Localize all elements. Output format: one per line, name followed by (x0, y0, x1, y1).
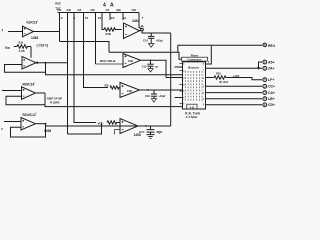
node junction A2 out (45, 62, 47, 64)
wire A3 feedback loop (6, 93, 45, 105)
box 4 D (187, 104, 197, 109)
wire lower link to B4 feed (68, 123, 102, 135)
svg-text:Beacon: Beacon (188, 65, 199, 69)
IC left pin numbers (183, 64, 185, 106)
ground funnel under C15 (148, 69, 153, 73)
wire bus stub 2a (122, 13, 124, 21)
svg-text:R3I/C14*: R3I/C14* (23, 82, 36, 86)
svg-text:1458: 1458 (31, 36, 38, 40)
svg-text:1458: 1458 (44, 129, 51, 133)
wire A3 input (2, 90, 22, 92)
wire A2 output (36, 62, 68, 64)
capacitor C17 (147, 126, 155, 135)
wire bus drop to B1 input (102, 13, 104, 30)
wire bus drop to B3 input (84, 13, 109, 88)
wire IC to terminal 8 (206, 104, 263, 106)
dot left edge lower (1, 128, 2, 129)
wire B2 route into IC pin3 (166, 77, 183, 79)
wire bus end drop to node (139, 13, 141, 29)
terminal 6 (263, 91, 275, 95)
node junction B4 out (145, 125, 147, 127)
svg-text:R2C: R2C (55, 2, 62, 6)
arrow tap to terminal 2 (257, 62, 262, 70)
svg-text:A5+: A5+ (268, 60, 275, 64)
op-amp B4 (120, 119, 138, 134)
resistor R18 4.7K (17, 45, 31, 49)
wire B1 node to riser (142, 31, 171, 33)
wire IC to terminal 7 (206, 98, 263, 100)
svg-text:40µf: 40µf (156, 130, 162, 134)
capacitor C14 (148, 33, 154, 44)
IC right pin numbers (203, 64, 205, 107)
svg-text:24B: 24B (127, 89, 132, 93)
svg-text:VCC-: VCC- (98, 122, 104, 126)
svg-text:(R, 3MV: (R, 3MV (219, 80, 228, 84)
svg-text:4 D: 4 D (190, 105, 196, 109)
IC stub left extra 6 (175, 97, 183, 99)
svg-text:C17: C17 (139, 130, 145, 134)
svg-text:LF+: LF+ (268, 78, 274, 82)
wire R33 to terminal 4 (228, 78, 262, 80)
svg-text:R 15/R5: R 15/R5 (50, 100, 60, 104)
wire Vin to A2 input (30, 47, 32, 58)
op-amp A3 (22, 87, 36, 100)
wire Vin lead (14, 46, 17, 48)
mark above node (141, 26, 143, 27)
node open circle test point (141, 28, 144, 31)
wire B2 output to IC pin3 (141, 60, 167, 77)
wire bus drop to A1 output and row line (34, 13, 60, 42)
resistor R33 (214, 76, 228, 79)
svg-text:24: 24 (98, 16, 102, 20)
op-amp B2 (123, 54, 141, 68)
node junction B2 out (150, 59, 152, 61)
wire A3 output (36, 92, 46, 94)
op-amp A2 (22, 57, 36, 70)
ground under C17 (147, 135, 155, 139)
svg-text:VIN: VIN (5, 46, 10, 50)
wire B3 output to IC (140, 89, 183, 91)
svg-text:24B: 24B (128, 59, 133, 63)
svg-text:RX-: RX- (105, 84, 110, 88)
terminal 8 (263, 103, 275, 107)
svg-text:C16: C16 (145, 94, 150, 98)
op-amp B3 (120, 83, 140, 98)
wire A4 feedback loop (11, 124, 46, 137)
capacitor C15 (147, 60, 153, 68)
header box connector (182, 57, 208, 61)
wire bridge to terminal 1 (211, 44, 262, 46)
resistor Rx input (110, 86, 120, 89)
ground funnel under C16 (151, 99, 156, 103)
svg-text:K3/C13*: K3/C13* (27, 21, 39, 25)
svg-text:R33: R33 (216, 72, 221, 76)
op-amp B1 (124, 23, 140, 39)
svg-text:LB+: LB+ (268, 97, 275, 101)
svg-text:# 4 5j0w: # 4 5j0w (186, 115, 198, 119)
svg-text:C15: C15 (142, 64, 147, 68)
capacitor C16 (151, 90, 157, 99)
svg-text:64K: 64K (106, 32, 112, 36)
resistor Vcc input (107, 121, 120, 124)
wire bus drop to B4 input (74, 13, 96, 123)
terminal 5 (263, 84, 275, 88)
wire A1 input (8, 31, 23, 33)
svg-text:D4: D4 (78, 8, 82, 12)
svg-text:C4: C4 (106, 8, 110, 12)
ground funnel under C14 (149, 44, 154, 48)
wire long line A4 output to IC riser (46, 125, 171, 127)
svg-text:( C16 #): ( C16 #) (37, 43, 49, 47)
svg-text:CA+: CA+ (268, 91, 275, 95)
terminal 2 (263, 60, 275, 64)
dot left edge upper (2, 29, 3, 30)
top bus wire (58, 12, 140, 14)
wire A2 feedback loop (5, 63, 46, 73)
wire B1 output (140, 29, 141, 32)
svg-text:21: 21 (85, 16, 89, 20)
wire bus drop to B2 input (95, 13, 97, 65)
svg-text:RIBF-CF-WF: RIBF-CF-WF (47, 97, 63, 101)
wire bridge right drop to IC pin8 (206, 45, 212, 64)
IC main box (183, 62, 206, 109)
wire B4 minus stub (115, 130, 121, 135)
svg-text:C14: C14 (143, 38, 148, 42)
IC left pin stubs (180, 64, 183, 104)
wire A4 input (4, 121, 21, 123)
svg-text:+10µf: +10µf (156, 38, 163, 42)
svg-text:RCF-VW-Ik: RCF-VW-Ik (100, 59, 116, 63)
wire riser vertical (170, 33, 172, 126)
wire A4 output (36, 123, 46, 125)
op-amp A1 (23, 26, 34, 37)
svg-text:CC+: CC+ (268, 85, 275, 89)
svg-text:G0: G0 (57, 8, 61, 12)
svg-text:2A+: 2A+ (268, 67, 275, 71)
svg-text:RE4: RE4 (268, 44, 275, 48)
terminal 7 (263, 97, 275, 101)
op-amp A4 (21, 118, 36, 131)
node small circle A2 tip (36, 62, 38, 64)
wire bus drop to A2 output (67, 13, 69, 135)
wire IC to terminal 6 (206, 92, 263, 94)
IC hatching (185, 71, 202, 102)
svg-text:2484: 2484 (132, 19, 139, 23)
svg-text:Connectors: Connectors (188, 58, 203, 61)
node junction A4 out (45, 123, 47, 125)
svg-text:DS: DS (91, 8, 95, 12)
terminal 3 (263, 66, 275, 70)
wire B2 input (96, 63, 124, 65)
terminal 4 (263, 78, 274, 82)
wire row line y52 to header (109, 52, 182, 59)
wire row line y41 (60, 42, 110, 53)
node junction B3 out (147, 89, 149, 91)
svg-text:4.7K: 4.7K (19, 49, 26, 53)
svg-text:+10µf: +10µf (158, 94, 165, 98)
svg-text:+µ: +µ (155, 64, 159, 68)
wire IC to R33 (206, 77, 215, 79)
wire bus stub 2A (109, 13, 111, 21)
wire long line A2 loop to IC (46, 72, 183, 75)
wire bridge left drop (177, 45, 179, 52)
wire long line A3 loop to IC (45, 105, 183, 107)
svg-text:R,B: R,B (19, 41, 24, 45)
wire IC to terminal 3 (206, 67, 263, 69)
wire bridge over connector (178, 44, 212, 46)
terminal 1 (263, 43, 275, 48)
svg-text:R2U/C12*: R2U/C12* (23, 113, 37, 117)
resistor 64K (104, 28, 122, 31)
svg-text:CD+: CD+ (268, 103, 275, 107)
IC stub left extra 2 (175, 66, 183, 68)
wire IC to terminal 5 (206, 85, 263, 87)
